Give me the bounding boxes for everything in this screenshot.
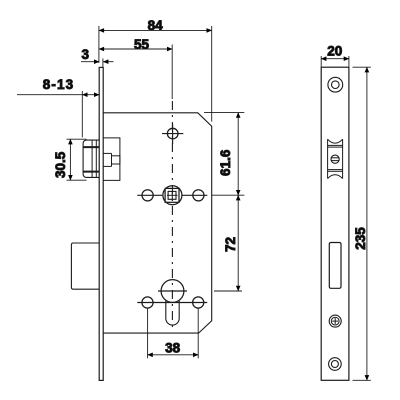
plate top screw hole [328,77,343,92]
dim 20 [321,56,349,67]
lower row right hole [193,297,204,308]
latch vertical line 1 [91,140,93,177]
plate bottom screw hole [329,358,342,371]
lower row centerline [137,302,207,304]
svg-text:84: 84 [148,18,164,33]
svg-text:235: 235 [353,227,368,250]
latch vertical line 2 [95,140,97,177]
vertical centerline [171,101,173,331]
spindle row right hole [193,190,204,201]
latch bolt (protruding) [83,140,99,177]
dim 30.5 [67,139,87,181]
spindle row centerline [137,194,162,196]
front plate (right view) [321,67,349,380]
latch housing inside case [103,138,120,181]
dim 235 [353,67,371,381]
svg-text:30.5: 30.5 [53,151,68,178]
plate phillips screw [329,315,341,327]
dim 38 [147,308,198,358]
deadbolt slot front view [329,243,341,289]
housing step bottom [103,165,111,167]
latch front view [328,139,343,178]
svg-text:3: 3 [82,47,90,62]
lock case body [103,113,212,333]
top screw hole crosshair [162,124,183,145]
svg-text:55: 55 [134,37,150,52]
svg-text:8-13: 8-13 [43,77,74,92]
svg-text:20: 20 [327,44,342,59]
dim 3 [81,59,114,67]
dim 84 [99,26,212,122]
lower row left hole [142,297,153,308]
deadbolt (protruding) [71,243,99,289]
housing tab [112,156,120,164]
housing step vertical [111,153,113,166]
latch bevel line bottom [83,171,99,173]
dim 72 [212,195,244,291]
spindle row left hole [142,190,153,201]
euro cylinder hole [158,280,187,325]
housing step top [103,152,111,154]
svg-text:72: 72 [223,237,238,252]
svg-text:61.6: 61.6 [218,149,233,176]
svg-text:38: 38 [165,340,181,355]
spindle follower square [163,186,182,205]
faceplate side view [99,67,103,380]
dim 55 [99,45,173,100]
latch bevel line top [83,146,99,148]
dim 61.6 [204,112,244,195]
dim 8-13 [17,91,100,137]
